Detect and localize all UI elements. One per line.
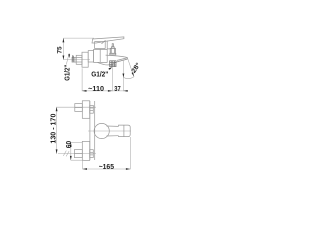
svg-text:75: 75 xyxy=(56,46,63,54)
shower hose outlet G1/2 under spout xyxy=(110,61,116,67)
main body xyxy=(94,49,108,62)
cartridge xyxy=(95,40,110,49)
28 deg ray 1 xyxy=(123,74,125,78)
svg-text:~110: ~110 xyxy=(88,84,104,93)
outlet axis extension xyxy=(111,67,113,91)
neck to spout xyxy=(107,126,119,136)
leader for G1/2" xyxy=(66,53,69,64)
diverter knob xyxy=(110,44,116,55)
arrow right ~110 xyxy=(108,90,112,92)
arrow left 37 (outside) xyxy=(124,90,128,92)
28 deg ray 2 xyxy=(127,58,134,77)
break slashes xyxy=(63,151,69,157)
arrow down 75 xyxy=(63,56,65,60)
body centerline xyxy=(88,130,131,132)
hex nut xyxy=(76,55,82,64)
ext/centerline top union xyxy=(57,106,96,108)
dim line ~110 / 37 xyxy=(82,90,128,92)
arrow left ~110 xyxy=(82,90,86,92)
bottom union nut xyxy=(74,150,82,158)
svg-text:G1/2": G1/2" xyxy=(91,70,108,79)
extension line top (handle top level) xyxy=(63,37,94,39)
leader to outlet xyxy=(109,68,112,70)
split line xyxy=(123,125,125,137)
body dome circle xyxy=(94,123,109,138)
spout tip inner line xyxy=(117,58,128,62)
pipe centerline xyxy=(63,58,90,60)
svg-text:60: 60 xyxy=(64,141,73,148)
spout end cap xyxy=(119,125,131,137)
ext 165 left xyxy=(82,160,84,169)
28 deg arc xyxy=(123,77,134,79)
body link xyxy=(88,51,93,62)
bottom union small nut xyxy=(90,150,94,158)
top union escutcheon xyxy=(82,101,89,119)
spout xyxy=(98,55,128,65)
dimension 75 line xyxy=(62,38,64,60)
threaded tail pipe xyxy=(72,57,76,62)
leader arrow down xyxy=(68,54,70,58)
spout tip extension xyxy=(122,60,124,91)
bottom union centerline xyxy=(58,153,96,155)
ext 60 bottom / esc bottom xyxy=(71,159,84,161)
ext 60 top xyxy=(71,141,83,143)
dim ~165 xyxy=(83,168,131,170)
svg-text:~165: ~165 xyxy=(99,162,114,171)
wall escutcheon xyxy=(82,52,88,67)
top union small nut xyxy=(90,105,94,113)
svg-text:G1/2": G1/2" xyxy=(62,65,71,81)
wall extension line xyxy=(81,68,83,91)
lever handle xyxy=(92,37,124,43)
dim 130-170 line xyxy=(56,107,58,154)
svg-text:37: 37 xyxy=(114,84,120,93)
dim 60 xyxy=(70,142,72,160)
arrow up 75 xyxy=(63,38,65,42)
ext 165 right from spout tip xyxy=(129,137,131,169)
mounting column xyxy=(90,101,95,160)
top union nut xyxy=(75,104,83,112)
bottom union escutcheon xyxy=(82,141,89,160)
svg-text:130 - 170: 130 - 170 xyxy=(49,114,58,144)
